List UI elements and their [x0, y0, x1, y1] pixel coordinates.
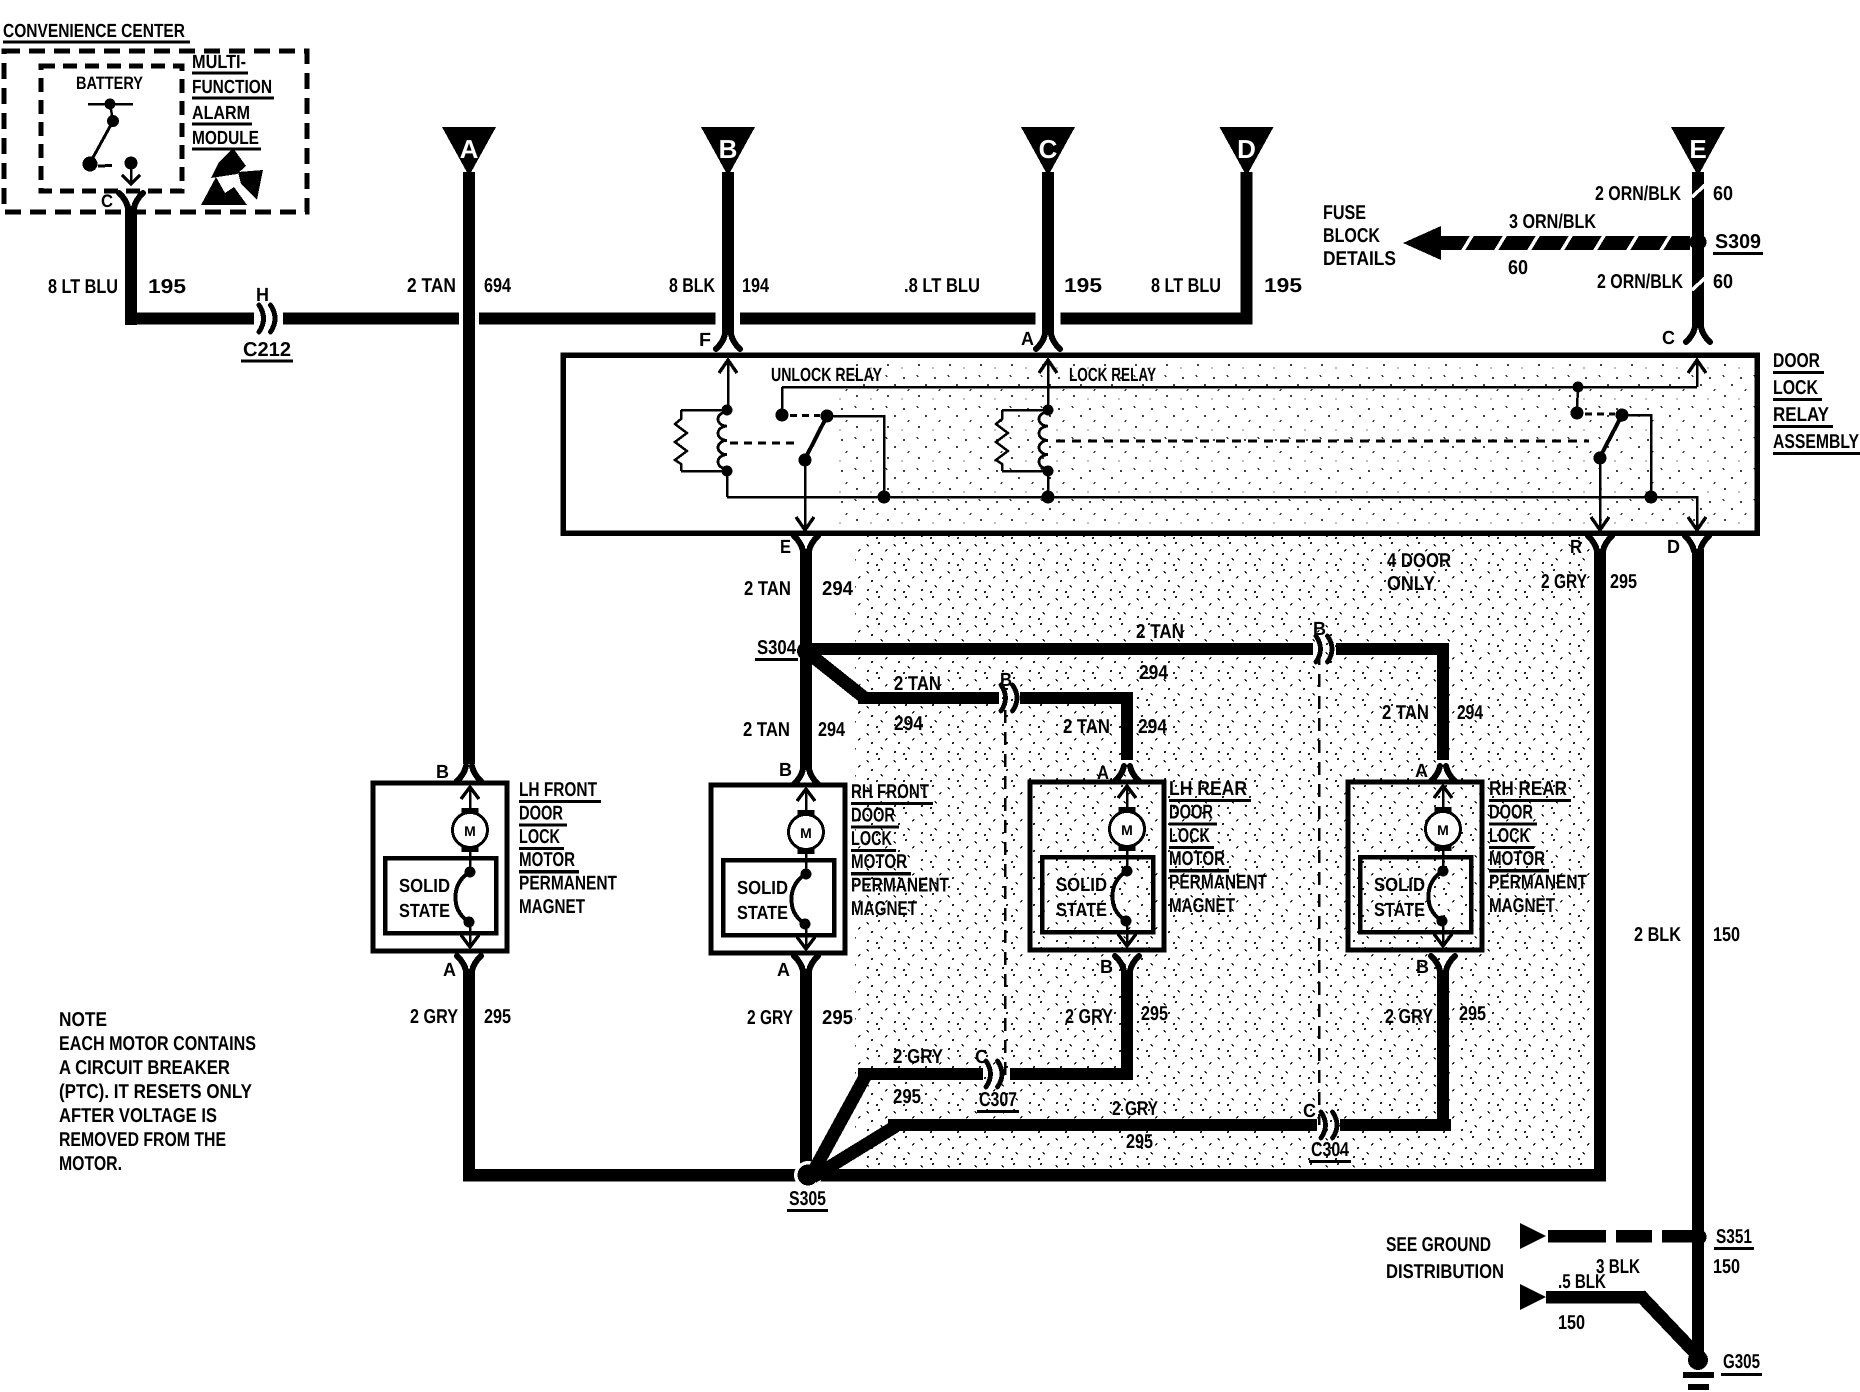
- svg-text:DISTRIBUTION: DISTRIBUTION: [1386, 1261, 1504, 1283]
- svg-text:B: B: [1100, 957, 1113, 978]
- solid state box: [1042, 857, 1153, 932]
- wire motor to breaker: [1442, 851, 1445, 872]
- svg-text:294: 294: [1139, 662, 1169, 684]
- motor name label: [1489, 778, 1587, 917]
- lock coil linkage dashes: [1056, 440, 1589, 443]
- svg-text:2 TAN: 2 TAN: [894, 673, 941, 695]
- pin D female fork: [1685, 536, 1694, 551]
- dashed wire to ground distribution with arrow: [1520, 1223, 1696, 1249]
- multi-function alarm module label: [192, 52, 274, 151]
- wire 8 BLK 194 from B: [716, 172, 740, 349]
- svg-text:A: A: [460, 134, 479, 164]
- svg-text:4 DOOR: 4 DOOR: [1387, 550, 1451, 572]
- triangle connector E: [1671, 127, 1725, 176]
- motor pin arrow bottom: [1434, 921, 1452, 946]
- svg-text:2 TAN: 2 TAN: [1063, 716, 1110, 738]
- svg-text:195: 195: [1064, 275, 1102, 297]
- svg-text:195: 195: [1264, 275, 1302, 297]
- motor pin arrow top: [1118, 786, 1136, 809]
- triangle connector A: [442, 127, 496, 176]
- ground bus wire 2 GRY 295 S305 rail: [463, 1169, 1606, 1182]
- solid state box: [385, 858, 496, 933]
- stub to lock NC contact: [1577, 387, 1578, 409]
- PTC circuit breaker curve: [1428, 866, 1448, 927]
- svg-text:S304: S304: [757, 637, 797, 659]
- svg-text:294: 294: [1138, 716, 1168, 738]
- PTC circuit breaker curve: [1112, 866, 1132, 927]
- svg-text:C307: C307: [979, 1089, 1017, 1111]
- svg-text:MODULE: MODULE: [192, 128, 259, 149]
- svg-text:F: F: [699, 330, 711, 351]
- motor pin arrow top: [461, 787, 479, 810]
- junction dot lock coil top: [1043, 405, 1054, 416]
- unlock contact gap dashes: [790, 414, 820, 417]
- wire 2 TAN 294 S304 to RH rear motor: [806, 643, 1455, 781]
- rail junction dot unlock NO branch: [878, 491, 891, 504]
- svg-text:C: C: [101, 191, 113, 211]
- svg-text:STATE: STATE: [1056, 900, 1107, 921]
- motor box outline: [373, 783, 507, 951]
- unlock switch pole: [799, 454, 812, 467]
- svg-text:2 GRY: 2 GRY: [1541, 571, 1588, 593]
- svg-text:2 ORN/BLK: 2 ORN/BLK: [1595, 183, 1681, 205]
- svg-text:D: D: [1237, 134, 1256, 164]
- wire 2 GRY 295 rh front motor to S305: [794, 956, 818, 1169]
- svg-text:A CIRCUIT BREAKER: A CIRCUIT BREAKER: [59, 1057, 230, 1079]
- solid state label: [737, 878, 788, 924]
- svg-text:A: A: [443, 960, 456, 981]
- motor box outline: [1348, 782, 1482, 950]
- svg-text:694: 694: [484, 275, 512, 297]
- motor name label: [519, 779, 617, 918]
- svg-text:STATE: STATE: [737, 903, 788, 924]
- triangle connector B: [701, 127, 755, 176]
- svg-text:2 TAN: 2 TAN: [744, 578, 791, 600]
- unlock coil linkage dashes: [730, 442, 800, 445]
- wire .5 BLK 150 to ground with arrow: [1520, 1284, 1700, 1358]
- svg-text:A: A: [777, 960, 790, 981]
- svg-text:8 LT BLU: 8 LT BLU: [1151, 275, 1221, 297]
- svg-text:DOOR: DOOR: [851, 804, 895, 826]
- ground rail inside relay box: [727, 497, 1697, 528]
- svg-text:STATE: STATE: [399, 901, 450, 922]
- wire 8 LT BLU 195 from D: [1241, 172, 1253, 324]
- wire 2 GRY 295 relay pin R to ground bus: [1594, 549, 1606, 1181]
- motor box outline: [711, 785, 845, 953]
- motor pin arrow bottom: [1118, 921, 1136, 946]
- pin D male arrow: [1688, 517, 1706, 530]
- svg-text:MOTOR: MOTOR: [851, 851, 907, 873]
- svg-text:295: 295: [1126, 1131, 1153, 1153]
- lock NO contact wire to rail: [1622, 415, 1651, 497]
- svg-text:B: B: [719, 134, 738, 164]
- unlock relay coil: [681, 409, 727, 412]
- wire motor to breaker: [805, 854, 808, 875]
- svg-text:8 BLK: 8 BLK: [669, 275, 715, 297]
- door boundary dashed line RH rear: [1318, 652, 1321, 1125]
- svg-text:RH FRONT: RH FRONT: [851, 781, 929, 803]
- svg-text:MAGNET: MAGNET: [1169, 895, 1235, 917]
- svg-text:2 GRY: 2 GRY: [1065, 1006, 1114, 1028]
- svg-text:MULTI-: MULTI-: [192, 52, 246, 73]
- svg-text:REMOVED FROM THE: REMOVED FROM THE: [59, 1129, 226, 1151]
- lock switch blade: [1600, 415, 1622, 457]
- svg-text:C212: C212: [243, 339, 291, 361]
- wire 2 TAN 294 S304 to LH rear motor: [807, 652, 1139, 781]
- svg-text:BLOCK: BLOCK: [1323, 225, 1380, 247]
- svg-text:.8 LT BLU: .8 LT BLU: [904, 275, 980, 297]
- svg-text:295: 295: [822, 1007, 853, 1029]
- connector B inline on 2 TAN to LH rear: [1001, 685, 1006, 711]
- svg-text:M: M: [1121, 822, 1133, 838]
- pin R male arrow: [1591, 517, 1609, 530]
- lock NO contact: [1616, 409, 1629, 422]
- rail junction dot lock NO branch: [1645, 491, 1658, 504]
- solid state label: [1374, 875, 1425, 921]
- svg-text:2 TAN: 2 TAN: [1382, 702, 1429, 724]
- svg-text:SOLID: SOLID: [1374, 875, 1425, 896]
- unlock NO contact: [821, 410, 834, 423]
- stipple region inside door lock relay assembly: [835, 360, 1755, 528]
- svg-text:DOOR: DOOR: [1169, 801, 1213, 823]
- 4 door only label: [1387, 550, 1451, 595]
- svg-text:A: A: [1415, 761, 1428, 782]
- lock pole wire to pin R: [1599, 458, 1602, 528]
- svg-text:2 TAN: 2 TAN: [407, 275, 456, 297]
- svg-text:ONLY: ONLY: [1387, 573, 1436, 595]
- svg-text:B: B: [436, 762, 449, 783]
- svg-text:295: 295: [1610, 571, 1637, 593]
- svg-text:150: 150: [1713, 924, 1740, 946]
- svg-text:DOOR: DOOR: [1773, 350, 1820, 372]
- pin R female fork: [1588, 536, 1597, 551]
- wire 2 ORN/BLK 60 from E to S309: [1692, 172, 1705, 242]
- triangle connector C: [1021, 127, 1075, 176]
- svg-text:2 GRY: 2 GRY: [893, 1046, 944, 1068]
- svg-text:2 ORN/BLK: 2 ORN/BLK: [1597, 271, 1683, 293]
- svg-text:150: 150: [1558, 1312, 1585, 1334]
- motor pin arrow top: [1434, 786, 1452, 809]
- battery dashed box: [41, 66, 182, 191]
- solid state label: [1056, 875, 1107, 921]
- wire 2 TAN 694 from A: [457, 172, 481, 781]
- svg-text:ASSEMBLY: ASSEMBLY: [1773, 431, 1860, 453]
- svg-text:195: 195: [148, 276, 186, 298]
- ground G305: [1683, 1350, 1714, 1390]
- solid state box: [723, 860, 834, 935]
- svg-text:M: M: [800, 825, 812, 841]
- svg-text:LOCK: LOCK: [1169, 825, 1210, 847]
- triangle connector D: [1220, 127, 1274, 176]
- svg-text:B: B: [779, 760, 792, 781]
- pin A male arrow: [1039, 360, 1057, 409]
- svg-text:C: C: [1039, 134, 1058, 164]
- svg-text:C304: C304: [1311, 1139, 1350, 1161]
- wire 2 GRY 295 lh front motor to ground bus: [457, 956, 481, 1174]
- svg-text:B: B: [1313, 619, 1326, 640]
- svg-text:294: 294: [818, 719, 846, 741]
- svg-text:S305: S305: [789, 1188, 826, 1210]
- connector C212 inline: [259, 305, 264, 332]
- svg-text:194: 194: [742, 275, 770, 297]
- solid state label: [399, 876, 450, 922]
- svg-text:SEE GROUND: SEE GROUND: [1386, 1234, 1491, 1256]
- svg-text:FUNCTION: FUNCTION: [192, 77, 272, 98]
- lock contact gap dashes: [1585, 413, 1615, 416]
- unlock NO contact wire to ground rail: [827, 416, 884, 497]
- svg-text:LOCK: LOCK: [1489, 825, 1530, 847]
- svg-text:PERMANENT: PERMANENT: [1489, 872, 1587, 894]
- battery feed line inside relay box: [782, 386, 1697, 389]
- wire 2 ORN/BLK 60 from S309 to relay pin C: [1686, 242, 1710, 342]
- main bus wire LT BLU 195 horizontal: [125, 313, 1253, 325]
- svg-text:2 GRY: 2 GRY: [1112, 1098, 1159, 1120]
- svg-text:MAGNET: MAGNET: [519, 896, 585, 918]
- wire 2 TAN 294 pin E to S304: [800, 549, 812, 657]
- lock NC contact: [1571, 407, 1584, 420]
- convenience center dashed box: [4, 51, 307, 212]
- svg-text:2 TAN: 2 TAN: [743, 719, 790, 741]
- svg-text:ALARM: ALARM: [192, 103, 250, 124]
- svg-text:NOTE: NOTE: [59, 1009, 107, 1031]
- svg-text:EACH MOTOR CONTAINS: EACH MOTOR CONTAINS: [59, 1033, 256, 1055]
- connector B inline on 2 TAN: [1316, 636, 1321, 662]
- svg-text:295: 295: [484, 1006, 511, 1028]
- svg-text:UNLOCK RELAY: UNLOCK RELAY: [771, 365, 882, 386]
- wire motor to breaker: [1126, 851, 1129, 872]
- motor M symbol: [1110, 807, 1145, 851]
- svg-text:PERMANENT: PERMANENT: [519, 873, 617, 895]
- connector C304 inline: [1321, 1112, 1326, 1138]
- svg-text:DOOR: DOOR: [519, 802, 563, 824]
- wire 2 TAN 294 S304 down to RH front motor: [794, 655, 818, 784]
- svg-text:.5 BLK: .5 BLK: [1558, 1271, 1606, 1293]
- motor M symbol: [453, 808, 488, 852]
- svg-text:LOCK: LOCK: [851, 828, 892, 850]
- motor pin arrow top: [797, 789, 815, 812]
- svg-text:2 BLK: 2 BLK: [1634, 924, 1681, 946]
- svg-text:CONVENIENCE CENTER: CONVENIENCE CENTER: [3, 21, 185, 42]
- battery feed symbol: [83, 99, 141, 185]
- unlock switch blade: [805, 416, 827, 459]
- svg-text:PERMANENT: PERMANENT: [1169, 872, 1267, 894]
- solid state box: [1360, 857, 1471, 932]
- unlock pole wire to pin E: [804, 460, 807, 528]
- junction dot coil top: [722, 405, 733, 416]
- PTC circuit breaker curve: [791, 869, 811, 930]
- svg-text:PERMANENT: PERMANENT: [851, 875, 949, 897]
- svg-text:R: R: [1570, 537, 1582, 558]
- svg-text:MAGNET: MAGNET: [851, 898, 917, 920]
- svg-text:MOTOR: MOTOR: [519, 849, 575, 871]
- svg-text:(PTC). IT RESETS ONLY: (PTC). IT RESETS ONLY: [59, 1081, 253, 1103]
- junction dot coil bottom: [722, 466, 733, 477]
- svg-text:294: 294: [822, 578, 854, 600]
- svg-text:LH FRONT: LH FRONT: [519, 779, 597, 801]
- motor pin arrow bottom: [797, 924, 815, 949]
- ESD sensitivity symbol: [201, 148, 263, 205]
- svg-text:MOTOR.: MOTOR.: [59, 1153, 122, 1175]
- svg-text:MOTOR: MOTOR: [1169, 848, 1225, 870]
- stipple region 4-door-only area: [855, 533, 1593, 1169]
- junction dot lock coil bottom: [1043, 466, 1054, 477]
- svg-text:MAGNET: MAGNET: [1489, 895, 1555, 917]
- svg-text:LH REAR: LH REAR: [1169, 778, 1247, 800]
- svg-text:DOOR: DOOR: [1489, 801, 1533, 823]
- pin F male arrow: [719, 360, 737, 409]
- fuse block details label: [1323, 202, 1396, 270]
- svg-text:8 LT BLU: 8 LT BLU: [48, 276, 118, 298]
- door boundary dashed line LH rear: [1004, 688, 1007, 1078]
- svg-text:A: A: [1021, 329, 1034, 350]
- svg-text:B: B: [1000, 670, 1012, 691]
- see ground distribution label: [1386, 1234, 1504, 1283]
- svg-text:SOLID: SOLID: [737, 878, 788, 899]
- svg-text:294: 294: [1457, 702, 1484, 724]
- motor name label: [851, 781, 949, 920]
- svg-text:S309: S309: [1715, 231, 1761, 253]
- svg-text:BATTERY: BATTERY: [76, 73, 143, 93]
- lock switch pole: [1594, 452, 1607, 465]
- svg-text:60: 60: [1713, 183, 1733, 205]
- svg-text:SOLID: SOLID: [1056, 875, 1107, 896]
- rail junction dot lock coil: [1042, 491, 1055, 504]
- pin E male arrow: [796, 517, 814, 530]
- wire 2 GRY 295 S305 to RH rear motor via C304: [813, 956, 1455, 1177]
- svg-text:295: 295: [1459, 1003, 1486, 1025]
- note text: [59, 1009, 256, 1175]
- svg-text:G305: G305: [1723, 1351, 1760, 1373]
- junction dot battery line to lock NC: [1573, 382, 1584, 393]
- motor M symbol: [1426, 807, 1461, 851]
- splice S304: [797, 642, 815, 660]
- svg-text:STATE: STATE: [1374, 900, 1425, 921]
- svg-text:E: E: [1689, 134, 1706, 164]
- pin C male arrow: [1688, 360, 1706, 387]
- wire lock coil bottom to rail: [1047, 471, 1050, 497]
- svg-text:294: 294: [894, 713, 924, 735]
- svg-text:MOTOR: MOTOR: [1489, 848, 1545, 870]
- svg-text:2 GRY: 2 GRY: [410, 1006, 459, 1028]
- svg-text:H: H: [256, 285, 269, 306]
- svg-text:RH REAR: RH REAR: [1489, 778, 1567, 800]
- svg-text:3 ORN/BLK: 3 ORN/BLK: [1509, 211, 1596, 233]
- wire .8 LT BLU 195 from C: [1036, 172, 1060, 349]
- svg-text:M: M: [1437, 822, 1449, 838]
- svg-text:2 GRY: 2 GRY: [747, 1007, 794, 1029]
- connector C307 inline: [986, 1061, 991, 1087]
- svg-text:LOCK: LOCK: [1773, 377, 1818, 399]
- svg-text:RELAY: RELAY: [1773, 404, 1830, 426]
- wire elbow to unlock NC contact: [781, 387, 784, 411]
- wire 2 GRY 295 S305 to LH rear motor via C307: [812, 956, 1139, 1174]
- motor box outline: [1030, 782, 1164, 950]
- door lock relay assembly label: [1773, 350, 1860, 455]
- PTC circuit breaker curve: [455, 867, 475, 928]
- wire 3 BLK 150 S351 to G305: [1692, 1237, 1704, 1357]
- svg-text:60: 60: [1713, 271, 1733, 293]
- motor M symbol: [789, 810, 824, 854]
- svg-text:M: M: [464, 823, 476, 839]
- motor name label: [1169, 778, 1267, 917]
- svg-text:60: 60: [1508, 257, 1528, 279]
- svg-text:FUSE: FUSE: [1323, 202, 1366, 224]
- wire 3 ORN/BLK 60 to fuse block: [1403, 226, 1690, 260]
- svg-text:D: D: [1667, 537, 1680, 558]
- svg-text:LOCK: LOCK: [519, 826, 560, 848]
- svg-text:C: C: [1303, 1101, 1316, 1122]
- splice S351: [1690, 1229, 1707, 1246]
- pin E female fork: [794, 536, 803, 551]
- svg-text:DETAILS: DETAILS: [1323, 248, 1396, 270]
- svg-text:S351: S351: [1716, 1226, 1752, 1248]
- lock relay coil: [1002, 409, 1048, 412]
- svg-text:2 TAN: 2 TAN: [1136, 621, 1184, 643]
- svg-text:295: 295: [1141, 1003, 1168, 1025]
- wire coil bottom to ground rail: [726, 471, 729, 497]
- unlock NC contact: [776, 409, 789, 422]
- battery output wire 8 LT BLU 195: [119, 193, 143, 325]
- wire 2 BLK 150 relay pin D to S351: [1692, 549, 1704, 1239]
- svg-text:C: C: [1662, 328, 1675, 349]
- splice S309: [1690, 234, 1707, 251]
- svg-text:150: 150: [1713, 1256, 1740, 1278]
- door lock relay assembly box: [563, 355, 1757, 533]
- wire motor to breaker: [469, 852, 472, 873]
- svg-text:B: B: [1416, 957, 1429, 978]
- svg-text:AFTER VOLTAGE IS: AFTER VOLTAGE IS: [59, 1105, 217, 1127]
- splice S305: [794, 1161, 822, 1189]
- svg-text:2 GRY: 2 GRY: [1385, 1006, 1434, 1028]
- svg-text:LOCK RELAY: LOCK RELAY: [1069, 365, 1156, 386]
- svg-text:295: 295: [893, 1086, 921, 1108]
- svg-text:SOLID: SOLID: [399, 876, 450, 897]
- motor pin arrow bottom: [461, 922, 479, 947]
- svg-text:E: E: [780, 537, 791, 558]
